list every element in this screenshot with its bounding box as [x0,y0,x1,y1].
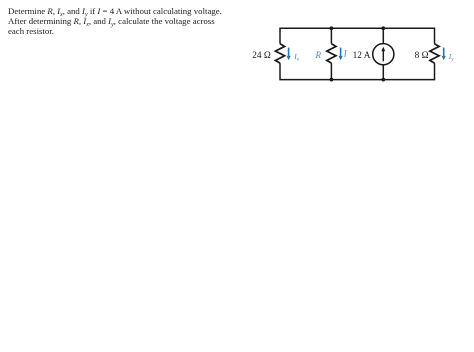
svg-text:8 Ω: 8 Ω [415,51,429,61]
svg-text:Ix: Ix [293,52,300,63]
svg-text:I: I [343,48,348,58]
svg-text:24 Ω: 24 Ω [252,51,271,61]
svg-text:Iy: Iy [448,52,455,63]
svg-text:R: R [315,50,322,60]
svg-text:12 A: 12 A [353,51,371,61]
